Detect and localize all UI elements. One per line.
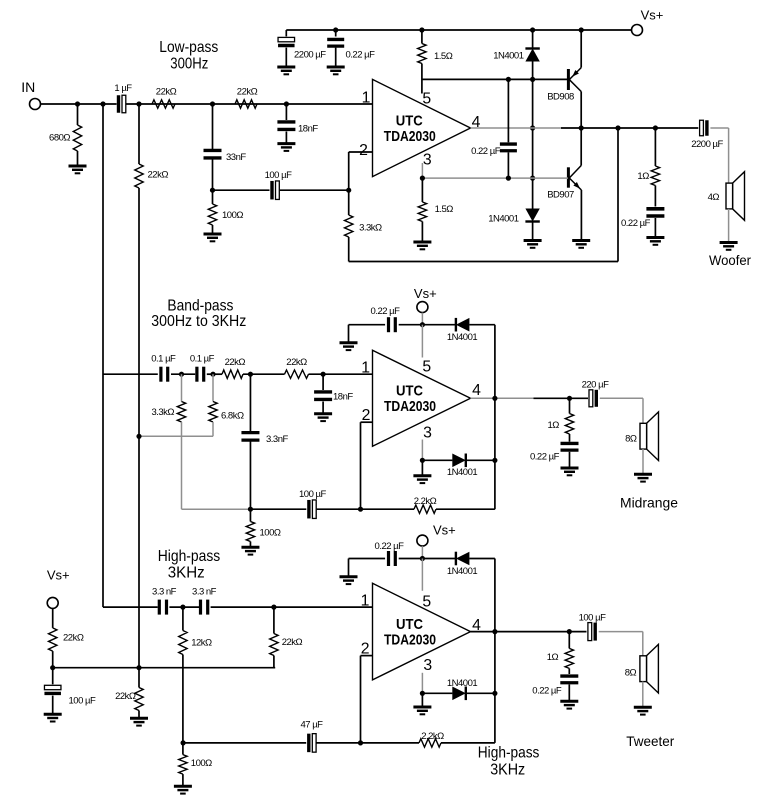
node 33nF tap bbox=[210, 101, 215, 106]
wire pin3 ch3 gray bbox=[421, 673, 423, 694]
node zobel tap ch2 bbox=[567, 396, 572, 401]
wire 12k to feedback bbox=[182, 655, 184, 743]
capacitor 0.22uF booster bbox=[507, 79, 509, 142]
node 12k tap bbox=[180, 605, 185, 610]
wire Vs+ rail ch1 bbox=[286, 29, 631, 31]
node 3.3nF tap bbox=[248, 372, 253, 377]
node output column ch2 bbox=[492, 396, 497, 401]
svg-text:BD908: BD908 bbox=[547, 92, 574, 103]
svg-text:1: 1 bbox=[362, 89, 371, 106]
transistor Q2 BD907 bbox=[567, 167, 570, 187]
wire 220uF to midrange gray bbox=[600, 397, 643, 399]
wire pin2 ch2 bbox=[361, 421, 373, 423]
svg-text:Woofer: Woofer bbox=[709, 252, 751, 268]
wire pin2 ch1 bbox=[349, 151, 373, 153]
svg-text:2.2kΩ: 2.2kΩ bbox=[414, 496, 437, 507]
node 1.5ohm top bbox=[419, 27, 424, 32]
wire pin3 ch2 gray bbox=[421, 440, 423, 461]
wire pin3 ground stub ch3 bbox=[421, 693, 423, 707]
ground pin3 ch2 bbox=[413, 476, 431, 483]
resistor 3.3k feedback ch1 bbox=[348, 190, 350, 215]
resistor 1.5ohm top bbox=[421, 30, 423, 44]
svg-text:Vs+: Vs+ bbox=[47, 568, 70, 583]
capacitor 0.22uF zobel ch2 bbox=[561, 443, 579, 450]
wire Vs+ to node ch2 bbox=[421, 313, 423, 325]
svg-text:3: 3 bbox=[423, 424, 432, 441]
capacitor 0.22uF supply bbox=[335, 30, 337, 37]
svg-text:Vs+: Vs+ bbox=[433, 523, 456, 538]
speaker woofer 4ohm bbox=[733, 172, 745, 221]
node 6.8k tap bbox=[210, 372, 215, 377]
ground 100ohm ch2 bbox=[241, 547, 259, 554]
capacitor 3.3nF bp bbox=[249, 374, 251, 431]
resistor 100ohm ch2 bbox=[249, 509, 251, 521]
ground supply ch3 bbox=[340, 577, 358, 584]
node feedback left bbox=[210, 188, 215, 193]
ground 100uF bias bbox=[44, 714, 62, 721]
ground woofer bbox=[720, 243, 738, 250]
node diode column / lower rail bbox=[530, 176, 535, 181]
svg-text:33nF: 33nF bbox=[226, 152, 246, 163]
svg-text:3.3kΩ: 3.3kΩ bbox=[359, 223, 382, 234]
capacitor 3.3nF hp B bbox=[201, 600, 208, 615]
node bus1 tap bbox=[100, 101, 105, 106]
svg-text:BD907: BD907 bbox=[547, 190, 574, 201]
resistor 100ohm ch1 bbox=[212, 190, 214, 204]
capacitor C1 1uF bbox=[117, 95, 120, 113]
capacitor 0.22uF zobel ch1 bbox=[646, 209, 664, 216]
wire feedback mid ch3 bbox=[317, 742, 420, 744]
resistor 22k series A bbox=[152, 100, 175, 108]
terminal Vs+ ch2 bbox=[417, 302, 428, 313]
diode 1N4001 bottom ch2 bbox=[465, 454, 467, 468]
svg-text:100 µF: 100 µF bbox=[579, 613, 606, 624]
wire bus1 vertical bbox=[102, 104, 104, 607]
svg-text:4: 4 bbox=[472, 382, 481, 399]
wire pin5 stub ch3 bbox=[421, 559, 423, 591]
node output / collectors bbox=[579, 125, 584, 130]
wire cap to node ch3 bbox=[399, 558, 423, 560]
svg-text:680Ω: 680Ω bbox=[49, 133, 70, 144]
resistor 22k bias upper bbox=[52, 608, 54, 628]
wire after 0.1uF B bbox=[207, 373, 222, 375]
resistor 22k bus2 lower bbox=[135, 688, 143, 711]
ground pin3 ch3 bbox=[413, 707, 431, 714]
resistor 22k hp input bbox=[273, 607, 275, 633]
svg-text:2: 2 bbox=[359, 142, 368, 159]
svg-text:1Ω: 1Ω bbox=[637, 171, 649, 182]
capacitor 2200uF supply bbox=[285, 30, 287, 36]
svg-text:6.8kΩ: 6.8kΩ bbox=[221, 411, 244, 422]
svg-text:5: 5 bbox=[422, 593, 431, 610]
terminal Vs+ bias bbox=[47, 597, 58, 608]
svg-text:0.22 µF: 0.22 µF bbox=[471, 146, 501, 157]
capacitor 0.22uF zobel ch3 bbox=[560, 676, 578, 683]
node bus2 tap bbox=[136, 101, 141, 106]
svg-text:UTC: UTC bbox=[396, 383, 423, 400]
wire output to woofer bbox=[710, 127, 728, 129]
svg-text:1N4001: 1N4001 bbox=[447, 678, 477, 689]
wire diode to column ch3 bbox=[469, 558, 495, 560]
wire pin5 stub ch2 bbox=[421, 325, 423, 358]
svg-text:22kΩ: 22kΩ bbox=[63, 633, 84, 644]
capacitor 0.22uF supply ch2 bbox=[389, 317, 396, 332]
wire output ch3 bbox=[471, 631, 587, 633]
wire after C1 bbox=[126, 103, 373, 105]
node feedback 3.3nF ch2 bbox=[248, 507, 253, 512]
node output / zobel tap bbox=[653, 125, 658, 130]
wire supply rail left ch2 bbox=[349, 324, 386, 326]
ground tweeter bbox=[634, 707, 652, 714]
svg-text:Vs+: Vs+ bbox=[414, 286, 437, 301]
wire node to diode ch2 bbox=[422, 324, 456, 326]
wire band-pass input from bus1 bbox=[103, 373, 158, 375]
diode 1N4001 top ch3 bbox=[455, 552, 457, 566]
wire output ch2 black bbox=[534, 397, 589, 399]
capacitor 0.22uF supply ch3 bbox=[389, 551, 396, 566]
node feedback pin2 ch3 bbox=[358, 740, 363, 745]
node diode column / output bbox=[530, 125, 535, 130]
wire supply rail left ch3 bbox=[349, 558, 386, 560]
svg-text:8Ω: 8Ω bbox=[625, 668, 637, 679]
wire 3.3k to feedback gray bbox=[182, 508, 251, 510]
svg-text:Tweeter: Tweeter bbox=[626, 733, 674, 749]
node D1 rail tap bbox=[530, 27, 535, 32]
svg-text:100Ω: 100Ω bbox=[191, 758, 212, 769]
svg-text:3: 3 bbox=[423, 657, 432, 674]
wire 100uF to tweeter gray bbox=[599, 631, 643, 633]
svg-text:1N4001: 1N4001 bbox=[447, 566, 477, 577]
resistor 22k series B bbox=[235, 100, 257, 108]
svg-text:300Hz: 300Hz bbox=[170, 55, 208, 72]
svg-text:0.22 µF: 0.22 µF bbox=[346, 50, 376, 61]
ground 18nF ch2 bbox=[314, 414, 332, 421]
node bus2 / bias rail bbox=[136, 434, 141, 439]
svg-text:IN: IN bbox=[21, 79, 35, 95]
wire bus2 upper bbox=[138, 104, 140, 164]
svg-text:22kΩ: 22kΩ bbox=[286, 357, 307, 368]
node bias rail bus2 bbox=[136, 665, 141, 670]
node after first 0.1uF bbox=[179, 372, 184, 377]
wire pin3 ch1 gray bbox=[421, 163, 423, 178]
node 18nF tap bbox=[284, 101, 289, 106]
svg-text:22kΩ: 22kΩ bbox=[282, 637, 303, 648]
node pin5 ch3 bbox=[420, 556, 425, 561]
node base rail / 0.22uF bbox=[506, 77, 511, 82]
resistor 1.5ohm bottom bbox=[421, 178, 423, 202]
wire pin2 ch3 bbox=[361, 655, 373, 657]
svg-text:1N4001: 1N4001 bbox=[447, 332, 477, 343]
ground 18nF ch1 bbox=[277, 144, 295, 151]
terminal IN bbox=[30, 99, 41, 110]
terminal Vs+ ch3 bbox=[417, 535, 428, 546]
svg-text:5: 5 bbox=[422, 91, 431, 108]
wire node to diode ch3 bbox=[422, 558, 456, 560]
wire feedback right ch2 bbox=[436, 508, 495, 510]
svg-text:22kΩ: 22kΩ bbox=[225, 357, 246, 368]
svg-text:0.22 µF: 0.22 µF bbox=[532, 686, 562, 697]
wire lower rail right ch3 bbox=[466, 692, 495, 694]
svg-text:1.5Ω: 1.5Ω bbox=[435, 204, 454, 215]
diode 1N4001 bottom ch3 bbox=[465, 687, 467, 701]
svg-text:100 µF: 100 µF bbox=[69, 696, 96, 707]
resistor 1ohm zobel ch3 bbox=[568, 632, 570, 649]
wire midrange ground gray bbox=[642, 449, 644, 474]
node base rail / diode column bbox=[530, 77, 535, 82]
node 22k tap hp bbox=[271, 605, 276, 610]
capacitor 47uF feedback bbox=[307, 734, 310, 753]
svg-text:18nF: 18nF bbox=[298, 124, 318, 135]
node pin3 / 1.5ohm bbox=[420, 176, 425, 181]
svg-text:100 µF: 100 µF bbox=[265, 170, 292, 181]
ground 100ohm ch3 bbox=[174, 786, 192, 793]
svg-text:22kΩ: 22kΩ bbox=[115, 691, 136, 702]
speaker tweeter 8ohm bbox=[647, 644, 659, 693]
wire high-pass input bbox=[103, 606, 158, 608]
svg-text:Low-pass: Low-pass bbox=[159, 39, 218, 56]
ground 100ohm ch1 bbox=[204, 234, 222, 241]
node BD908 collector rail bbox=[579, 27, 584, 32]
node lower rail / column ch3 bbox=[492, 691, 497, 696]
svg-text:2.2kΩ: 2.2kΩ bbox=[421, 731, 444, 742]
node lower rail / 0.22uF bbox=[506, 176, 511, 181]
svg-text:0.22 µF: 0.22 µF bbox=[371, 306, 401, 317]
capacitor 3.3nF hp A bbox=[159, 600, 166, 615]
node pin3 rail ch2 bbox=[420, 458, 425, 463]
ground zobel ch1 bbox=[646, 238, 664, 245]
ground midrange bbox=[634, 474, 652, 481]
wire input main bbox=[41, 103, 117, 105]
wire lower rail right ch2 bbox=[466, 459, 495, 461]
svg-text:18nF: 18nF bbox=[333, 392, 353, 403]
wire diode to column ch2 bbox=[469, 324, 495, 326]
node pin5 ch2 bbox=[420, 322, 425, 327]
ground zobel ch3 bbox=[560, 701, 578, 708]
svg-text:4Ω: 4Ω bbox=[708, 192, 720, 203]
wire tweeter ground gray bbox=[642, 682, 644, 708]
wire feedback left ch3 bbox=[183, 742, 306, 744]
ground supply ch2 bbox=[340, 343, 358, 350]
wire BD908 base rail bbox=[422, 78, 568, 80]
svg-text:2200 µF: 2200 µF bbox=[294, 50, 326, 61]
diode D1 1N4001 top bbox=[532, 30, 534, 48]
svg-text:0.22 µF: 0.22 µF bbox=[530, 451, 560, 462]
resistor 2.2k ch2 bbox=[414, 505, 436, 513]
wire output mid bbox=[561, 127, 698, 129]
resistor 100ohm ch3 bbox=[182, 743, 184, 755]
ground 22k bus2 bbox=[130, 718, 148, 725]
capacitor 100uF feedback ch1 bbox=[270, 181, 273, 200]
node output / feedback tap bbox=[615, 125, 620, 130]
node input junction bbox=[75, 101, 80, 106]
svg-text:22kΩ: 22kΩ bbox=[156, 87, 177, 98]
svg-text:1 µF: 1 µF bbox=[114, 83, 132, 94]
ground 1.5ohm bottom bbox=[413, 242, 431, 249]
resistor 22k bus2 bbox=[135, 164, 143, 188]
svg-text:22kΩ: 22kΩ bbox=[237, 87, 258, 98]
ground 0.22uF supply bbox=[327, 67, 345, 74]
ground 680ohm bbox=[69, 166, 87, 173]
svg-text:3KHz: 3KHz bbox=[168, 564, 205, 581]
wire to 22k B bbox=[243, 373, 285, 375]
capacitor 100uF output bbox=[588, 623, 592, 641]
wire output pin4 gray bbox=[471, 127, 562, 129]
svg-text:TDA2030: TDA2030 bbox=[384, 398, 436, 415]
capacitor 18nF ch1 bbox=[285, 104, 287, 120]
wire between 3.3nF caps bbox=[169, 606, 199, 608]
op-amp U1 TDA2030 bbox=[373, 79, 471, 176]
svg-text:12kΩ: 12kΩ bbox=[191, 638, 212, 649]
svg-text:3.3 nF: 3.3 nF bbox=[192, 587, 217, 598]
wire feedback bottom ch1 bbox=[349, 261, 618, 263]
svg-text:22kΩ: 22kΩ bbox=[148, 170, 169, 181]
wire diode column mid bbox=[532, 79, 534, 208]
svg-text:TDA2030: TDA2030 bbox=[384, 632, 436, 649]
svg-text:220 µF: 220 µF bbox=[582, 380, 609, 391]
svg-text:100 µF: 100 µF bbox=[299, 489, 326, 500]
wire after 3.3nF B bbox=[211, 606, 373, 608]
svg-text:UTC: UTC bbox=[396, 112, 423, 129]
svg-text:3KHz: 3KHz bbox=[490, 761, 525, 778]
svg-text:Midrange: Midrange bbox=[620, 495, 678, 511]
capacitor 220uF output bbox=[589, 390, 593, 407]
diode 1N4001 top ch2 bbox=[455, 318, 457, 332]
svg-text:100Ω: 100Ω bbox=[222, 210, 243, 221]
op-amp U3 TDA2030 bbox=[373, 583, 471, 680]
svg-text:1: 1 bbox=[361, 359, 370, 376]
svg-text:1: 1 bbox=[361, 592, 370, 609]
resistor 12k bbox=[182, 607, 184, 630]
wire bus2 vertical bbox=[138, 188, 140, 668]
node output column ch3 bbox=[492, 629, 497, 634]
node zobel tap ch3 bbox=[567, 629, 572, 634]
capacitor 2200uF output bbox=[700, 120, 704, 136]
svg-text:High-pass: High-pass bbox=[158, 548, 221, 565]
wire woofer to ground bbox=[728, 209, 730, 243]
svg-text:0.22 µF: 0.22 µF bbox=[375, 541, 405, 552]
ground zobel ch2 bbox=[561, 468, 579, 475]
capacitor 100uF bias bbox=[52, 668, 54, 685]
node feedback pin2 ch2 bbox=[358, 507, 363, 512]
ground BD907 emitter bbox=[572, 241, 590, 248]
capacitor 18nF ch2 bbox=[322, 374, 324, 390]
node 0.22uF supply bbox=[333, 27, 338, 32]
wire Vs+ to node ch3 bbox=[421, 546, 423, 558]
node bias divider bbox=[50, 665, 55, 670]
ground D2 bbox=[524, 241, 542, 248]
resistor 2.2k ch3 bbox=[419, 739, 441, 747]
resistor 22k bp B bbox=[285, 370, 309, 378]
svg-text:5: 5 bbox=[422, 359, 431, 376]
svg-text:0.1 µF: 0.1 µF bbox=[151, 354, 176, 365]
svg-text:1N4001: 1N4001 bbox=[493, 51, 523, 62]
wire feedback mid ch2 bbox=[317, 508, 414, 510]
wire bias rail bbox=[53, 667, 276, 669]
wire output ch2 gray bbox=[471, 397, 534, 399]
wire BD907 base rail gray bbox=[422, 177, 568, 179]
resistor 3.3k bp bbox=[181, 374, 183, 401]
op-amp U2 TDA2030 bbox=[373, 350, 471, 446]
svg-text:0.1 µF: 0.1 µF bbox=[190, 354, 215, 365]
svg-text:2200 µF: 2200 µF bbox=[691, 139, 723, 150]
wire feedback left ch2 bbox=[250, 508, 306, 510]
svg-text:8Ω: 8Ω bbox=[625, 434, 637, 445]
wire supply left drop ch2 bbox=[348, 325, 350, 343]
wire C100uF to pin2 node bbox=[280, 189, 349, 191]
capacitor 0.1uF A bbox=[161, 367, 168, 382]
svg-text:Vs+: Vs+ bbox=[641, 8, 664, 23]
node lower rail / column ch2 bbox=[492, 458, 497, 463]
svg-text:0.22 µF: 0.22 µF bbox=[621, 218, 651, 229]
wire lower rail ch2 bbox=[422, 459, 452, 461]
svg-text:3.3nF: 3.3nF bbox=[266, 434, 288, 445]
resistor 1ohm zobel ch2 bbox=[569, 398, 571, 413]
svg-text:1Ω: 1Ω bbox=[548, 420, 560, 431]
resistor 680ohm bbox=[77, 104, 79, 125]
svg-text:1Ω: 1Ω bbox=[547, 652, 559, 663]
wire right column ch3 bbox=[494, 559, 496, 743]
node feedback 12k ch3 bbox=[181, 740, 186, 745]
svg-text:47 µF: 47 µF bbox=[301, 720, 324, 731]
diode D2 1N4001 bottom bbox=[525, 220, 539, 222]
wire supply left drop ch3 bbox=[348, 559, 350, 577]
svg-text:High-pass: High-pass bbox=[478, 744, 540, 761]
svg-text:300Hz to 3KHz: 300Hz to 3KHz bbox=[151, 313, 246, 330]
capacitor 0.1uF B bbox=[197, 367, 204, 382]
svg-text:3: 3 bbox=[423, 152, 432, 169]
svg-text:UTC: UTC bbox=[396, 616, 423, 633]
svg-text:100Ω: 100Ω bbox=[260, 528, 281, 539]
resistor 1ohm zobel ch1 bbox=[654, 128, 656, 166]
svg-text:1.5Ω: 1.5Ω bbox=[434, 51, 453, 62]
terminal Vs+ ch1 bbox=[632, 25, 643, 36]
svg-text:3.3 nF: 3.3 nF bbox=[152, 587, 177, 598]
svg-text:1N4001: 1N4001 bbox=[488, 214, 518, 225]
svg-text:TDA2030: TDA2030 bbox=[384, 128, 436, 145]
wire cap to node ch2 bbox=[399, 324, 423, 326]
wire lower rail ch3 bbox=[422, 692, 452, 694]
wire feedback right ch3 bbox=[441, 742, 495, 744]
svg-text:3.3kΩ: 3.3kΩ bbox=[151, 407, 174, 418]
transistor Q1 BD908 bbox=[580, 30, 582, 68]
resistor 22k bp A bbox=[222, 370, 243, 378]
node pin3 rail ch3 bbox=[420, 691, 425, 696]
node 18nF tap ch2 bbox=[321, 372, 326, 377]
wire right column ch2 bbox=[494, 325, 496, 510]
capacitor 100uF feedback ch2 bbox=[307, 500, 310, 519]
wire between 0.1uF caps bbox=[171, 373, 195, 375]
svg-text:1N4001: 1N4001 bbox=[447, 467, 477, 478]
ground 2200uF supply bbox=[277, 67, 295, 74]
wire pin3 ground stub ch2 bbox=[421, 460, 423, 476]
resistor 6.8k bp bbox=[212, 374, 214, 401]
wire to pin1 op2 bbox=[309, 373, 373, 375]
wire to C 100uF bbox=[213, 189, 270, 191]
speaker midrange 8ohm bbox=[647, 412, 659, 461]
wire 6.8k to bus2 gray bbox=[139, 435, 213, 437]
node pin2 column ch1 bbox=[346, 188, 351, 193]
capacitor 33nF bbox=[212, 104, 214, 149]
